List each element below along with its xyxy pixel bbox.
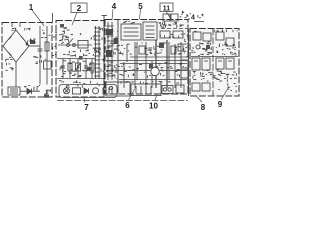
value label right of U2 xyxy=(159,22,161,25)
value label block4 mid xyxy=(232,74,235,77)
resistor R18 xyxy=(176,85,184,93)
value label block2 lower mid xyxy=(86,49,89,52)
connector pins block7 xyxy=(103,88,112,95)
diode D7 xyxy=(84,88,89,93)
indicator lamps box xyxy=(162,86,173,94)
block 2 enclosure xyxy=(56,21,104,98)
wire tick bottom A xyxy=(33,87,35,92)
value label A right edge xyxy=(55,53,56,56)
value label bottom right xyxy=(46,90,49,93)
value label block4 topright xyxy=(216,51,218,54)
block 7 sub-enclosure xyxy=(59,85,117,98)
wire bus block4 xyxy=(191,56,238,58)
resistor R15 xyxy=(171,46,176,54)
value label left of terminals xyxy=(161,26,162,29)
wire bus y79 xyxy=(119,79,187,81)
transistor Q1 xyxy=(192,83,200,91)
wire bus y70 xyxy=(106,70,187,72)
connector pin ticks right xyxy=(107,26,114,76)
node label A corner xyxy=(44,95,49,98)
svg-text:10: 10 xyxy=(149,102,158,111)
resistor R21 xyxy=(203,33,211,41)
node dot B top xyxy=(60,24,64,28)
node dot D1 xyxy=(206,45,210,49)
value label mid column xyxy=(40,60,43,63)
value label block4 topleft xyxy=(201,42,204,45)
capacitor C7 xyxy=(216,32,224,40)
svg-text:4: 4 xyxy=(112,2,117,11)
wire verticals block5 xyxy=(126,44,128,62)
value label left column xyxy=(10,66,13,69)
pin labels spine xyxy=(102,70,105,73)
diode D6 xyxy=(20,89,40,95)
svg-text:4: 4 xyxy=(191,15,195,22)
resistor R13 xyxy=(139,46,145,54)
value label AC input xyxy=(12,29,14,32)
resistor R20 xyxy=(193,32,201,40)
meter M1 xyxy=(151,67,159,75)
value label right of 4 xyxy=(199,16,201,19)
value label bridge xyxy=(33,41,35,44)
IC U2 xyxy=(143,22,157,40)
value label B upper xyxy=(61,37,64,40)
leader callout 4 top xyxy=(112,9,113,20)
value label D bottomright xyxy=(226,83,229,86)
svg-text:11: 11 xyxy=(163,6,171,13)
bridge rectifier BR1 xyxy=(3,23,29,62)
value label D topband xyxy=(217,30,219,33)
leader callout 11 xyxy=(166,12,171,20)
node dot AC label xyxy=(30,40,35,44)
IC U1 xyxy=(121,24,141,40)
wire dashed segment above C right xyxy=(161,28,188,30)
wire divider x118 xyxy=(117,20,119,94)
wire bridge bottom lead xyxy=(15,62,17,87)
value label A right upper xyxy=(49,34,51,37)
pin block lower xyxy=(106,50,112,57)
transistor Q2 xyxy=(202,83,210,91)
lamp L2 xyxy=(93,88,99,94)
leader callout 10 xyxy=(155,94,157,100)
svg-text:5: 5 xyxy=(138,2,143,11)
capacitor C6 xyxy=(148,47,152,49)
value label block5 mid xyxy=(161,44,164,47)
boundary wire C/D xyxy=(188,29,190,96)
capacitor C1 xyxy=(38,26,43,85)
value label B mid-right xyxy=(93,53,94,56)
leader callout 6 xyxy=(129,89,136,101)
leader callout 1 xyxy=(32,10,44,26)
node cluster dark xyxy=(149,64,153,69)
node dot B m1 xyxy=(79,56,83,60)
value label above RN xyxy=(169,36,171,39)
node dot B m2 xyxy=(87,67,91,71)
value label block2 low xyxy=(97,82,98,85)
resistor R22 xyxy=(192,58,200,70)
resistor R4 xyxy=(90,59,94,79)
svg-text:8: 8 xyxy=(201,103,206,112)
pin block mid xyxy=(114,38,119,44)
wire bus y60 xyxy=(106,60,187,62)
wire bus y63 xyxy=(120,63,187,65)
transformer T1 xyxy=(8,87,20,95)
value label C/D margin xyxy=(187,34,190,37)
resistor R27 xyxy=(181,70,188,78)
zener diode D5 xyxy=(44,61,52,69)
svg-text:2: 2 xyxy=(77,4,82,13)
capacitor C3 xyxy=(84,59,88,79)
capacitor C8 xyxy=(226,38,234,46)
switch S1 xyxy=(67,39,76,47)
leader callout 7 xyxy=(84,98,85,103)
relay contact K1a xyxy=(78,41,88,49)
resistor R3 xyxy=(68,59,72,79)
resistor R16 xyxy=(178,44,183,51)
svg-text:6: 6 xyxy=(125,101,130,110)
leader callout 8 xyxy=(197,97,203,103)
wire column P4 xyxy=(111,22,113,80)
wire tick spine top xyxy=(102,15,108,17)
wire bus block2 upper xyxy=(57,58,95,60)
lamp L1 xyxy=(64,88,70,94)
wire column P1 xyxy=(95,26,97,79)
value label D col right of divider xyxy=(218,73,220,76)
block 4 enclosure xyxy=(190,29,239,97)
value label strip xyxy=(65,85,68,88)
wire bus block2 xyxy=(57,78,104,80)
connector pin ticks left xyxy=(94,28,101,76)
svg-text:9: 9 xyxy=(218,100,223,109)
leader callout 9 xyxy=(221,88,229,101)
wire bridge output xyxy=(29,45,40,47)
leader callout 2 xyxy=(72,13,77,26)
resistor network RN1 xyxy=(160,31,170,38)
resistor network RN2 xyxy=(173,31,183,38)
wire contact feed xyxy=(58,44,92,46)
switch S2 xyxy=(73,88,81,94)
wire bus y57 xyxy=(130,56,187,58)
resistor R25 xyxy=(226,58,234,69)
boundary wire B/C xyxy=(103,15,105,97)
leader callout 5 xyxy=(140,9,141,19)
resistor R23 xyxy=(202,58,210,70)
terminal TB2 xyxy=(171,14,178,21)
resistor R24 xyxy=(216,58,224,69)
callout 11 xyxy=(160,3,173,12)
wire column P2 xyxy=(98,26,100,79)
value label bottom xyxy=(24,85,26,88)
callout 2 xyxy=(71,3,87,13)
connector J1 xyxy=(131,84,161,96)
wire vertical heavy x167 xyxy=(166,40,168,88)
terminal TB1 xyxy=(163,14,170,21)
resistor R1 xyxy=(45,26,49,85)
value label U1 xyxy=(124,20,127,23)
wire vertical heavy x156 xyxy=(155,40,157,88)
value label top right xyxy=(185,16,187,19)
bottom bus wire xyxy=(57,100,188,102)
scan tone wash (decorative) xyxy=(2,23,52,97)
relay K2 contact xyxy=(109,86,112,89)
svg-text:1: 1 xyxy=(29,3,34,12)
wire stub A top corner xyxy=(52,13,54,23)
svg-text:7: 7 xyxy=(84,103,89,112)
dark node cluster xyxy=(159,43,164,49)
resistor R26 xyxy=(181,60,188,68)
varistor RV1 xyxy=(76,59,81,79)
lamp L1 cross xyxy=(64,89,68,93)
block 1 enclosure xyxy=(2,23,52,98)
value label block2 top xyxy=(65,36,68,39)
relay box K2 xyxy=(106,82,130,96)
block 5 enclosure xyxy=(105,20,188,95)
value label block2 mid xyxy=(63,59,66,62)
block 4 divider xyxy=(212,29,214,97)
value label block5 low xyxy=(149,74,151,77)
capacitor C2 xyxy=(61,59,65,79)
pin block upper xyxy=(106,29,113,35)
contact circle xyxy=(196,45,200,49)
value label block5 bottom xyxy=(152,80,154,83)
wire column P3 xyxy=(107,22,109,80)
wire stub top right xyxy=(194,21,204,23)
